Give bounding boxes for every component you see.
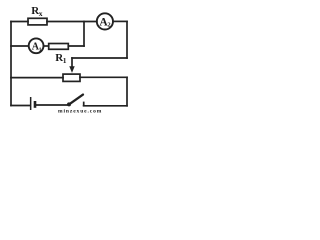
wire bottom middle segment [36, 104, 68, 106]
wire rheostat right segment [80, 76, 127, 78]
wire wiper vertical [71, 58, 73, 67]
switch fixed contact hook [83, 102, 85, 106]
wire top left segment [11, 21, 28, 23]
wire row2 between A1 and R0 [44, 45, 49, 47]
wire top right segment [113, 20, 127, 22]
svg-text:1: 1 [39, 47, 42, 53]
svg-text:2: 2 [107, 22, 110, 29]
wire bottom right segment [84, 105, 127, 107]
wire row2 riser [83, 22, 85, 47]
wire rheostat left segment [11, 77, 63, 79]
rheostat wiper arrowhead [69, 66, 74, 73]
switch pivot dot [67, 102, 71, 106]
wire bottom left segment [11, 105, 30, 107]
rheostat R1 box [63, 74, 80, 81]
wire right vertical lower [126, 77, 128, 106]
wire top middle segment [47, 21, 97, 23]
wire row2 left segment [11, 45, 29, 47]
resistor R0 box [49, 44, 69, 50]
battery long plate [30, 97, 32, 110]
wire right vertical upper [126, 22, 128, 59]
ammeter A2 [97, 13, 113, 29]
wire left vertical [10, 22, 12, 106]
resistor Rx box [28, 18, 47, 25]
battery short plate [34, 101, 37, 108]
svg-text:minzexue.com: minzexue.com [58, 109, 102, 115]
svg-text:1: 1 [63, 56, 67, 65]
svg-text:x: x [39, 9, 43, 18]
wire wiper horizontal [72, 57, 127, 59]
ammeter A1 [29, 38, 44, 53]
wire row2 right segment [68, 45, 84, 47]
switch lever [69, 95, 83, 105]
